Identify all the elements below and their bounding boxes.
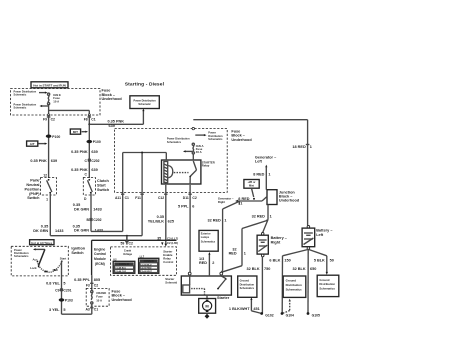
svg-text:Start: Start [60, 256, 66, 260]
svg-text:0.35: 0.35 [157, 215, 164, 219]
svg-text:C202: C202 [93, 218, 101, 222]
svg-text:1: 1 [240, 202, 242, 206]
svg-text:Ground: Ground [286, 278, 297, 282]
svg-text:C2=48 CLR: C2=48 CLR [115, 270, 127, 273]
svg-text:RED: RED [199, 261, 207, 265]
svg-text:C2: C2 [129, 241, 133, 245]
svg-text:Schematic: Schematic [14, 105, 27, 109]
svg-text:Voltage: Voltage [123, 252, 133, 256]
svg-text:Right: Right [218, 200, 225, 204]
svg-text:1 BLK/WHT: 1 BLK/WHT [229, 307, 250, 311]
svg-text:639: 639 [91, 150, 97, 154]
svg-text:8 RED: 8 RED [253, 173, 264, 177]
svg-text:1: 1 [310, 145, 312, 149]
svg-text:3 YEL: 3 YEL [49, 308, 60, 312]
svg-text:5: 5 [63, 308, 65, 312]
svg-text:(PNP): (PNP) [29, 192, 40, 196]
svg-text:0.35 PPL: 0.35 PPL [74, 278, 91, 282]
svg-text:P103: P103 [65, 299, 73, 303]
svg-text:639: 639 [109, 124, 115, 128]
svg-text:C3=68 WHT: C3=68 WHT [140, 271, 152, 273]
svg-text:C2: C2 [94, 283, 98, 287]
svg-text:C2: C2 [192, 196, 196, 200]
svg-text:Acc: Acc [32, 257, 38, 261]
svg-text:650: 650 [310, 267, 316, 271]
svg-text:32 RED: 32 RED [208, 218, 222, 222]
svg-text:Schematics: Schematics [167, 140, 182, 144]
svg-text:Schematic: Schematic [14, 92, 27, 96]
svg-text:Schematics: Schematics [14, 254, 29, 258]
svg-text:1: 1 [224, 218, 226, 222]
svg-text:Off: Off [44, 270, 48, 274]
svg-text:Clutch: Clutch [97, 179, 109, 183]
svg-text:F11: F11 [135, 196, 141, 200]
svg-text:Schematics: Schematics [240, 286, 255, 290]
svg-text:18 RED: 18 RED [292, 145, 306, 149]
svg-text:DK GRN: DK GRN [74, 208, 89, 212]
svg-text:10 A: 10 A [96, 298, 102, 302]
svg-text:Starter: Starter [217, 296, 230, 300]
svg-text:G105: G105 [312, 313, 320, 317]
svg-text:Solenoid: Solenoid [165, 281, 177, 285]
svg-text:C202: C202 [91, 159, 99, 163]
svg-text:Run: Run [53, 268, 59, 272]
svg-text:805: 805 [94, 278, 100, 282]
svg-text:Hot at All Times: Hot at All Times [31, 241, 52, 245]
svg-text:1433: 1433 [55, 229, 63, 233]
svg-text:0.35 PNK: 0.35 PNK [30, 159, 47, 163]
svg-text:RED: RED [229, 252, 237, 256]
svg-text:6 BLK: 6 BLK [269, 259, 280, 263]
svg-text:A3: A3 [85, 308, 89, 312]
svg-text:639: 639 [91, 168, 97, 172]
svg-text:D11: D11 [183, 196, 189, 200]
svg-text:Mini: Mini [249, 183, 254, 187]
svg-text:50: 50 [330, 259, 334, 263]
svg-text:C12: C12 [158, 196, 164, 200]
svg-text:32 BLK: 32 BLK [293, 267, 306, 271]
svg-text:Relay: Relay [202, 164, 210, 168]
svg-text:59: 59 [121, 241, 125, 245]
svg-text:Exterior: Exterior [201, 231, 211, 235]
svg-text:2: 2 [212, 261, 214, 265]
svg-text:0.35 PNK: 0.35 PNK [71, 150, 88, 154]
svg-text:10 A: 10 A [53, 99, 59, 103]
svg-text:Neutral: Neutral [26, 183, 39, 187]
svg-text:Switch: Switch [27, 196, 40, 200]
svg-text:Start: Start [97, 183, 106, 187]
svg-text:C2 (L65): C2 (L65) [167, 241, 178, 245]
svg-text:Engine: Engine [94, 247, 105, 251]
svg-text:Ground: Ground [240, 279, 250, 283]
svg-text:0.8 YEL: 0.8 YEL [46, 281, 60, 285]
svg-text:0.35 PNK: 0.35 PNK [71, 168, 88, 172]
svg-text:Underhood: Underhood [231, 138, 252, 142]
svg-text:C2=68 RED: C2=68 RED [140, 268, 152, 270]
svg-text:P100: P100 [52, 135, 60, 139]
svg-text:Distribution: Distribution [319, 282, 335, 286]
svg-text:F3: F3 [86, 283, 90, 287]
svg-text:Schematic: Schematic [138, 103, 151, 106]
svg-text:1433: 1433 [93, 208, 101, 212]
svg-text:639: 639 [51, 159, 57, 163]
svg-text:6: 6 [192, 205, 194, 209]
svg-text:12: 12 [43, 173, 47, 177]
svg-text:Switch: Switch [71, 251, 84, 255]
svg-text:G102: G102 [265, 313, 273, 317]
svg-text:F9: F9 [43, 118, 47, 122]
svg-text:Lock: Lock [30, 266, 37, 270]
svg-text:1: 1 [270, 215, 272, 219]
svg-text:Underhood: Underhood [279, 199, 300, 203]
svg-text:A/T: A/T [30, 142, 35, 146]
svg-text:150: 150 [284, 259, 290, 263]
svg-text:C1: C1 [91, 118, 95, 122]
svg-text:Schematics: Schematics [319, 287, 335, 291]
svg-text:C9: C9 [55, 289, 59, 293]
svg-text:Schematics: Schematics [201, 240, 216, 244]
svg-text:DK GRN: DK GRN [74, 229, 89, 233]
svg-text:Ground: Ground [319, 278, 329, 282]
svg-text:P100: P100 [93, 140, 101, 144]
svg-text:Underhood: Underhood [102, 97, 123, 101]
svg-text:Schematics: Schematics [208, 137, 223, 141]
svg-text:Distribution: Distribution [286, 283, 302, 287]
svg-text:Position: Position [25, 187, 41, 191]
svg-text:1: 1 [46, 198, 48, 202]
svg-text:Left: Left [316, 233, 324, 237]
svg-text:750: 750 [264, 267, 270, 271]
svg-text:1: 1 [268, 173, 270, 177]
svg-text:5 PPL: 5 PPL [178, 205, 189, 209]
svg-text:Starting - Diesel: Starting - Diesel [125, 81, 165, 87]
svg-text:5: 5 [63, 281, 65, 285]
svg-text:Underhood: Underhood [112, 298, 133, 302]
svg-text:C1=68 BLU: C1=68 BLU [140, 264, 152, 266]
svg-text:Lamps: Lamps [201, 235, 210, 239]
svg-text:Module: Module [94, 257, 106, 261]
svg-text:A11: A11 [115, 196, 121, 200]
svg-text:Control: Control [94, 252, 106, 256]
svg-text:F8: F8 [84, 118, 88, 122]
svg-text:Control: Control [163, 260, 173, 264]
svg-text:0.35: 0.35 [73, 203, 80, 207]
svg-text:Schematics: Schematics [286, 288, 302, 292]
svg-text:32 RED: 32 RED [252, 215, 266, 219]
svg-text:YEL/BLK: YEL/BLK [148, 220, 165, 224]
svg-text:451: 451 [253, 307, 259, 311]
svg-text:G104: G104 [286, 313, 294, 317]
svg-text:Hot in START and RUN: Hot in START and RUN [33, 84, 66, 88]
svg-text:Left: Left [255, 160, 263, 164]
svg-text:DK GRN: DK GRN [33, 229, 48, 233]
svg-text:(ECM): (ECM) [95, 262, 105, 266]
svg-text:32 BLK: 32 BLK [247, 267, 260, 271]
svg-text:0.35 PNK: 0.35 PNK [108, 119, 125, 123]
svg-text:C1=48 BLU: C1=48 BLU [115, 267, 127, 270]
svg-text:Switch: Switch [97, 188, 110, 192]
svg-text:Distribution: Distribution [240, 282, 255, 286]
svg-text:C1: C1 [94, 308, 98, 312]
svg-text:40 A: 40 A [196, 150, 202, 154]
svg-text:625: 625 [168, 220, 174, 224]
svg-text:C201: C201 [63, 289, 71, 293]
svg-text:C2: C2 [51, 118, 55, 122]
svg-text:1: 1 [244, 252, 246, 256]
svg-text:Park/: Park/ [30, 179, 40, 183]
svg-text:5 BLK: 5 BLK [314, 259, 325, 263]
svg-text:Right: Right [271, 240, 281, 244]
svg-text:8 RED: 8 RED [238, 197, 249, 201]
svg-text:M/T: M/T [73, 130, 78, 134]
svg-text:C1: C1 [125, 196, 129, 200]
